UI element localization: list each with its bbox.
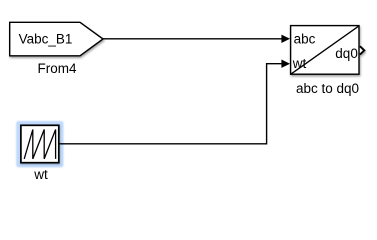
svg-text:abc: abc — [294, 31, 316, 46]
arrowhead at abc input — [281, 35, 290, 43]
output port arrow dq0 — [360, 46, 364, 54]
wire: wt block to wt input (three segments) — [59, 64, 282, 144]
svg-text:Vabc_B1: Vabc_B1 — [19, 32, 73, 47]
arrowhead at wt input — [281, 60, 290, 68]
selection halo around wt block — [16, 121, 63, 167]
signal generator block wt (sawtooth) — [21, 125, 59, 162]
svg-text:wt: wt — [292, 56, 307, 71]
From block From4 (goto tag pentagon) — [10, 22, 103, 56]
svg-text:wt: wt — [33, 167, 48, 182]
diagonal line inside block — [291, 26, 358, 74]
abc to dq0 transformation block U1 — [291, 26, 359, 75]
svg-text:dq0: dq0 — [335, 46, 358, 61]
wire: From4 output to abc input — [103, 38, 282, 40]
svg-text:From4: From4 — [37, 61, 76, 76]
svg-text:abc to dq0: abc to dq0 — [296, 81, 359, 96]
sawtooth waveform — [24, 130, 55, 159]
